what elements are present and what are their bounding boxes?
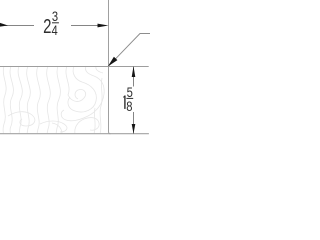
- svg-text:2: 2: [43, 15, 51, 38]
- svg-text:4: 4: [52, 23, 58, 38]
- svg-text:8: 8: [126, 99, 132, 114]
